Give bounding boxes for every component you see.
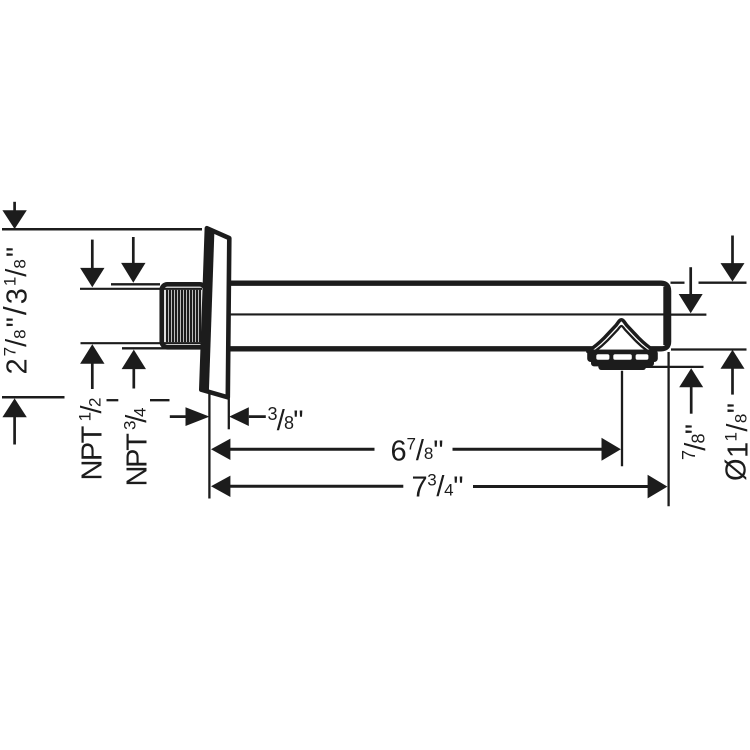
6 7/8 dimension line [211, 439, 230, 460]
NPT 3/4 crest reference line bottom [122, 347, 203, 349]
NPT 1/2 reference line top [80, 288, 202, 290]
escutcheon left rim band [201, 228, 215, 392]
svg-text:67/8": 67/8" [391, 435, 444, 468]
arrow up 7/8 [679, 368, 703, 387]
arrow down 7/8 [689, 267, 692, 295]
right extension line tube bottom [671, 348, 747, 350]
svg-text:73/4": 73/4" [412, 471, 464, 504]
right extension line tube top [671, 282, 685, 284]
arrow up (escutcheon height bottom) [2, 398, 26, 417]
right extension line outlet bottom [640, 366, 704, 368]
extension line escutcheon bottom (far left) [2, 396, 65, 399]
NPT 1/2 reference line bottom [81, 342, 203, 344]
6 7/8 right extension (outlet centre) [621, 371, 623, 466]
threaded nipple body [162, 284, 206, 347]
spout tube outline [228, 283, 669, 349]
tube middle line [206, 313, 664, 315]
NPT 3/4 crest reference line top [111, 283, 160, 285]
arrow down NPT 3/4 [132, 237, 135, 265]
extension line wall plane (below escutcheon) [208, 391, 210, 499]
arrow up dia 1 1/8 [721, 350, 745, 369]
arrow down dia 1 1/8 [731, 236, 734, 265]
arrow down NPT 1/2 [91, 240, 94, 270]
7 3/4 dimension line [211, 476, 230, 497]
svg-text:NPT 1/2: NPT 1/2 [76, 398, 109, 481]
arrow up NPT 3/4 [122, 350, 146, 370]
aerator pyramid inner line [595, 326, 647, 351]
7 3/4 right extension (tube end) [667, 352, 669, 506]
spout tube right end cap [663, 287, 669, 345]
right extension line tube mid [671, 313, 706, 315]
escutcheon plate outline [201, 228, 229, 397]
arrow up NPT 1/2 [80, 344, 104, 364]
dashed extension escutcheon bottom [107, 399, 119, 401]
aerator slots [596, 354, 648, 360]
extension line escutcheon top (left) [2, 228, 202, 231]
arrow down (escutcheon height top) [13, 202, 16, 212]
extension line escutcheon face [228, 399, 230, 430]
aerator collar [587, 350, 658, 362]
aerator pyramid [588, 320, 655, 352]
3/8 dimension arrows [170, 415, 186, 418]
thread hatch lines [167, 290, 200, 342]
svg-text:NPT 3/4: NPT 3/4 [121, 408, 154, 487]
